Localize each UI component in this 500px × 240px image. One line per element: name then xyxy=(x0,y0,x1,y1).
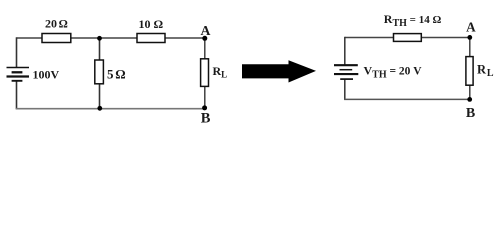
battery V1 100V xyxy=(7,68,30,81)
wire left vertical upper (corner to battery top) xyxy=(16,37,18,67)
node B dot right xyxy=(467,97,472,102)
junction dot top of 5ohm xyxy=(97,36,102,41)
wire 5ohm branch lower xyxy=(99,84,101,109)
resistor 20ohm box xyxy=(42,34,71,43)
svg-text:20Ω: 20Ω xyxy=(45,17,68,31)
svg-text:A: A xyxy=(466,20,476,35)
wire bottom horizontal xyxy=(16,108,205,110)
load resistor RL (right circuit) xyxy=(466,57,473,86)
junction dot bottom of 5ohm xyxy=(97,106,102,111)
wire right branch upper (node A to RL) xyxy=(469,38,471,58)
wire left vertical upper xyxy=(344,37,346,65)
arrow (transform symbol) xyxy=(242,60,316,82)
wire right branch lower (RL to node B) xyxy=(204,86,206,108)
resistor 10ohm box xyxy=(137,34,165,43)
wire left vertical lower xyxy=(344,79,346,100)
wire bottom horizontal xyxy=(344,98,470,100)
wire top-left horizontal (left corner to 20ohm resistor) xyxy=(17,37,43,39)
node B dot xyxy=(202,105,207,110)
svg-text:B: B xyxy=(466,106,475,121)
svg-text:100V: 100V xyxy=(33,68,60,82)
wire top right (10ohm to node A) xyxy=(165,37,205,39)
node A dot right xyxy=(467,35,472,40)
load resistor RL (left circuit) xyxy=(201,59,209,87)
resistor 5ohm box (vertical) xyxy=(95,60,104,84)
resistor RTH box xyxy=(394,34,422,42)
wire right branch upper (node A to RL) xyxy=(204,38,206,59)
svg-text:B: B xyxy=(201,110,211,126)
wire top middle (20ohm to 10ohm, through node) xyxy=(71,37,138,39)
node A dot xyxy=(202,36,207,41)
battery VTH xyxy=(334,65,358,79)
wire right branch lower (RL to node B) xyxy=(469,85,471,99)
wire 5ohm branch upper xyxy=(99,39,101,61)
svg-text:5Ω: 5Ω xyxy=(107,67,126,82)
svg-text:10 Ω: 10 Ω xyxy=(139,17,164,31)
wire left vertical lower (battery bottom to bottom wire) xyxy=(16,81,18,110)
wire top right (RTH to node A) xyxy=(421,37,470,39)
wire top left (corner to RTH) xyxy=(345,37,394,39)
svg-text:A: A xyxy=(201,23,211,38)
